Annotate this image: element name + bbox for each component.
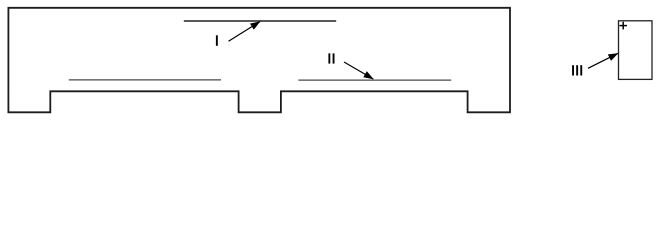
label II [328,53,334,63]
leader arrow for II [344,62,373,79]
small specimen rectangle [619,21,653,80]
plus mark at specimen corner [620,22,628,30]
label III [572,65,582,75]
slab cross-section outline with three feet [8,8,510,113]
label I [216,35,218,46]
reinforcement line II right segment [298,79,451,81]
leader arrow for III [588,53,618,68]
reinforcement line II left segment [69,79,221,81]
reinforcement line I (top bar) [184,20,336,22]
leader arrow for I [229,22,261,42]
